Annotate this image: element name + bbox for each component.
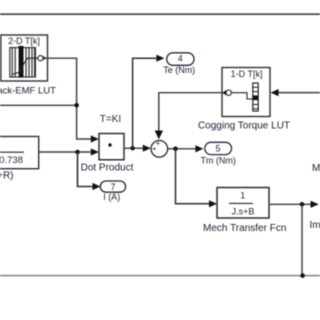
svg-text:Dot Product: Dot Product	[81, 163, 134, 174]
svg-text:J.s+B: J.s+B	[232, 206, 255, 216]
outport 5 Tm (Nm)	[205, 142, 232, 154]
sum block	[151, 139, 168, 158]
svg-text:I (A): I (A)	[103, 192, 120, 202]
svg-text:1: 1	[240, 191, 245, 201]
wire: Mech TF out to right edge	[269, 203, 311, 205]
junction	[300, 273, 305, 278]
LUT icon (2-D)	[10, 46, 38, 78]
wire: feedback bottom	[0, 275, 320, 277]
block Dot Product	[99, 134, 124, 160]
wire: Sum out to Tm	[168, 148, 201, 150]
svg-text:Te (Nm): Te (Nm)	[163, 65, 195, 75]
block Back-EMF LUT	[1, 35, 48, 81]
wire: Dot Product out to Sum	[124, 147, 148, 149]
wire: branch up to Te	[133, 58, 162, 148]
svg-text:Back-EMF LUT: Back-EMF LUT	[0, 86, 56, 97]
junction	[74, 103, 79, 108]
junction	[130, 146, 134, 150]
1-D table icon	[253, 83, 258, 111]
block Mech Transfer Fcn	[217, 188, 269, 219]
junction	[75, 150, 80, 155]
output port marker	[38, 56, 46, 61]
junction	[300, 202, 305, 207]
junction	[173, 147, 178, 152]
svg-text:Cogging Torque LUT: Cogging Torque LUT	[198, 120, 290, 131]
svg-text:1-D T[k]: 1-D T[k]	[231, 69, 263, 79]
wire: Cogging LUT out to Sum top	[159, 93, 222, 131]
wire: feedback down	[301, 204, 303, 275]
wire branch to I(A)	[78, 152, 99, 187]
input arrow on right edge	[271, 89, 279, 96]
svg-text:Im: Im	[310, 220, 320, 231]
svg-text:T=KI: T=KI	[100, 114, 121, 125]
wire from left edge	[0, 104, 77, 106]
svg-text:Mech Transfer Fcn: Mech Transfer Fcn	[203, 223, 286, 234]
svg-text:5: 5	[215, 143, 220, 153]
svg-text:+: +	[156, 139, 161, 148]
wire: Back-EMF out to Dot Product in1	[43, 58, 97, 139]
svg-text:4: 4	[178, 54, 183, 64]
svg-text:7: 7	[110, 182, 115, 192]
svg-text:s+0.738: s+0.738	[0, 155, 23, 166]
block Cogging Torque LUT	[222, 68, 270, 117]
svg-text:(L.s+R): (L.s+R)	[0, 170, 14, 181]
wire: Elec TF out to Dot Product in2	[39, 151, 97, 153]
outport 7 I (A)	[100, 181, 125, 192]
block Elec Transfer Fcn (cropped left)	[0, 137, 39, 169]
svg-text:2-D T[k]: 2-D T[k]	[8, 36, 40, 46]
wire: branch down to Mech TF	[176, 149, 215, 204]
svg-text:Tm (Nm): Tm (Nm)	[200, 156, 236, 166]
svg-text:+: +	[152, 144, 157, 153]
top frame line	[0, 13, 320, 15]
input port marker	[222, 90, 231, 95]
outport 4 Te (Nm)	[167, 53, 194, 66]
svg-text:M: M	[312, 163, 320, 174]
